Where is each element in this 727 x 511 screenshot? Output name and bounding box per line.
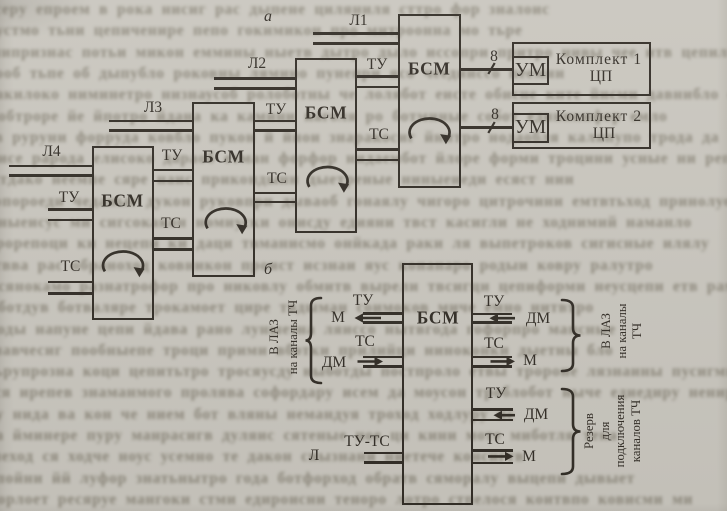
right brace 1 (В ЛАЗ) bbox=[562, 300, 581, 371]
УМ box 1 bbox=[512, 56, 549, 85]
label ТУ bbox=[367, 56, 387, 74]
БСМ block 2 bbox=[192, 102, 255, 277]
wire block4 to УМ2 bbox=[459, 126, 513, 128]
wire Л (ТУ-ТС) pair into block5 (line pair) bbox=[364, 452, 403, 454]
bus slash 8 wires (line 2) bbox=[488, 122, 494, 133]
БСМ block 1 bbox=[92, 146, 154, 320]
arrow to М (left group 1) bbox=[361, 317, 381, 320]
rotation arrow in block4 bbox=[410, 118, 450, 138]
label ДМ bbox=[524, 406, 548, 424]
label 8 bbox=[491, 106, 499, 124]
rotated label В ЛАЗ на каналы ТЧ (right) bbox=[599, 303, 646, 358]
label а bbox=[264, 8, 272, 26]
arrow from ДМ (left group 2) bbox=[358, 360, 377, 363]
БСМ block 3 bbox=[295, 58, 357, 233]
bus slash 8 wires (line 1) bbox=[488, 63, 494, 74]
rotated label В ЛАЗ на каналы ТЧ (left) bbox=[265, 300, 303, 374]
wire ТУ reserve pair right of block5 (line pair) bbox=[472, 408, 513, 410]
wire Л2 pair into block3 (line pair) bbox=[214, 77, 296, 79]
rotation arrow in block1 bbox=[103, 251, 143, 271]
label Л bbox=[309, 447, 320, 465]
rotation arrow in block2 bbox=[206, 208, 246, 228]
label Л4 bbox=[42, 143, 60, 161]
wire Л1 pair into block4 (line pair) bbox=[313, 32, 399, 34]
rotation arrow in block3 bbox=[308, 167, 348, 187]
label ТУ bbox=[353, 292, 373, 310]
arrow from ДМ (right group 3) bbox=[500, 414, 515, 417]
label б bbox=[264, 261, 272, 279]
label ТС bbox=[355, 333, 375, 351]
label Л2 bbox=[248, 55, 266, 73]
БСМ block 5 (part б) bbox=[402, 263, 474, 505]
wire ТУ pair right of block5 (from ДМ) (line pair) bbox=[472, 313, 512, 315]
label ТС bbox=[369, 126, 389, 144]
wire Л4 pair into block1 (line pair) bbox=[9, 165, 93, 167]
label ТУ bbox=[266, 101, 286, 119]
label ТУ-ТС bbox=[344, 433, 389, 451]
wire ТС pair block2-block3 (line pair) bbox=[253, 192, 296, 194]
label ТС bbox=[161, 215, 181, 233]
wire block4 to УМ1 bbox=[459, 68, 513, 70]
wire ТУ pair left of block5 (to М) (line pair) bbox=[363, 312, 403, 314]
wire ТС pair block1-block2 (line pair) bbox=[152, 237, 194, 239]
left brace (В ЛАЗ) bbox=[306, 298, 322, 383]
Комплект 1 ЦП box bbox=[512, 42, 651, 96]
wire ТС pair right of block5 (to М) (line pair) bbox=[472, 356, 512, 358]
label М bbox=[331, 309, 345, 327]
arrow to М (right group 2) bbox=[491, 360, 509, 363]
Комплект 2 ЦП box bbox=[512, 102, 651, 149]
wire Л3 pair into block2 (line pair) bbox=[109, 120, 194, 122]
arrow to М (right group 4) bbox=[488, 455, 507, 458]
rotated label Резерв для подключения каналов ТЧ bbox=[582, 395, 644, 468]
label М bbox=[523, 352, 537, 370]
right brace 2 (Резерв) bbox=[562, 389, 581, 474]
label М bbox=[522, 448, 536, 466]
label ТУ bbox=[484, 293, 504, 311]
wire ТУ pair block2-block3 (line pair) bbox=[253, 120, 296, 122]
wire ТС pair block3-block4 (line pair) bbox=[356, 148, 399, 150]
wire ТУ pair block3-block4 (line pair) bbox=[356, 75, 399, 77]
wire ТС pair left of block5 (to ДМ) (line pair) bbox=[363, 356, 403, 358]
label ТУ bbox=[162, 147, 182, 165]
label ТС bbox=[485, 431, 505, 449]
label 8 bbox=[490, 48, 498, 66]
wire ТУ stub left of block1 (line pair) bbox=[48, 208, 93, 210]
label ТС bbox=[484, 335, 504, 353]
wire ТС reserve pair right of block5 (line pair) bbox=[472, 449, 513, 451]
arrow from ДМ (right group 1) bbox=[496, 317, 515, 320]
label Л1 bbox=[349, 12, 367, 30]
label ТС bbox=[267, 170, 287, 188]
label Л3 bbox=[144, 99, 162, 117]
label ТУ bbox=[486, 385, 506, 403]
label ТУ bbox=[59, 189, 79, 207]
wire ТУ pair block1-block2 (line pair) bbox=[152, 169, 194, 171]
label ДМ bbox=[322, 354, 346, 372]
БСМ block 4 bbox=[398, 14, 461, 188]
label ТС bbox=[61, 258, 81, 276]
wire ТС stub left of block1 (line pair) bbox=[48, 281, 93, 283]
УМ box 2 bbox=[512, 113, 549, 143]
label ДМ bbox=[526, 310, 550, 328]
